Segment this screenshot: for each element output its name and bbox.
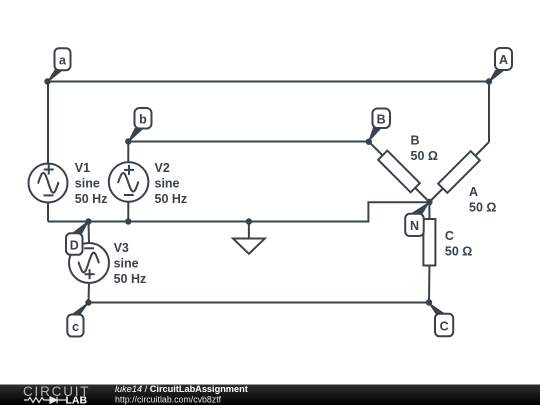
wire V2 top lead [127,142,129,163]
node b flag [125,108,151,145]
svg-text:sine: sine [114,257,139,271]
node A flag [486,48,512,85]
label V2 [155,161,188,206]
label V3 [114,241,147,286]
junction V2 bottom [125,218,131,224]
ground [233,239,265,254]
node D flag [66,218,92,255]
svg-text:50 Hz: 50 Hz [75,192,108,206]
wire A vertical drop [488,82,490,143]
svg-text:50 Hz: 50 Hz [114,272,147,286]
svg-text:sine: sine [75,177,100,191]
CircuitLab logo [23,384,90,405]
svg-text:50 Ω: 50 Ω [411,149,438,163]
label V1 [75,161,108,206]
voltage source V1 [29,164,68,203]
wire diagonal resistor B axis [369,142,430,202]
wire V1 bottom lead [47,203,49,222]
svg-text:C: C [445,229,454,243]
resistor B body [378,151,420,193]
svg-text:C: C [440,320,449,334]
node a flag [44,48,70,85]
svg-text:V1: V1 [75,161,90,175]
svg-text:B: B [411,134,420,148]
svg-text:V3: V3 [114,241,129,255]
svg-text:luke14 / CircuitLabAssignment: luke14 / CircuitLabAssignment [115,384,248,394]
wire V1 top lead [47,82,49,164]
footer text [115,384,248,404]
wire b rail [128,141,368,143]
svg-text:A: A [499,53,508,67]
junction ground [246,218,252,224]
node B flag junction [366,109,390,145]
label resistor A value [469,185,496,215]
svg-text:D: D [70,239,79,253]
svg-text:N: N [410,219,419,233]
wire V3 bottom lead [88,283,91,303]
svg-text:50 Ω: 50 Ω [469,201,496,215]
resistor C body [423,219,435,266]
wire resistor C top lead [428,202,430,219]
svg-text:B: B [377,112,386,126]
svg-text:50 Hz: 50 Hz [155,192,188,206]
voltage source V2 [109,162,149,202]
wire V3 top lead [88,222,91,244]
wire diagonal resistor A axis [429,142,489,202]
resistor A body [438,151,480,193]
svg-text:http://circuitlab.com/cvb8ztf: http://circuitlab.com/cvb8ztf [115,394,222,404]
node N flag [405,199,432,236]
svg-text:V2: V2 [155,161,170,175]
wire neutral rail with jog to node N [48,202,428,221]
wire resistor C bottom lead [428,266,430,303]
svg-text:50 Ω: 50 Ω [445,244,472,258]
svg-text:sine: sine [155,177,180,191]
wire top rail a to A [48,81,490,83]
node c flag [67,299,91,336]
voltage source V3 (inverted) [69,243,109,283]
label resistor C value [445,229,472,258]
svg-text:LAB: LAB [66,395,88,405]
wire bottom rail c to C [89,302,430,304]
footer bar [0,385,540,405]
label resistor B value [411,134,438,163]
wire V2 bottom lead [127,201,129,222]
node C flag [426,299,453,336]
svg-text:c: c [72,320,79,334]
wire ground lead [248,222,250,239]
svg-text:A: A [469,185,478,199]
svg-text:a: a [59,54,67,68]
svg-text:b: b [139,112,147,126]
